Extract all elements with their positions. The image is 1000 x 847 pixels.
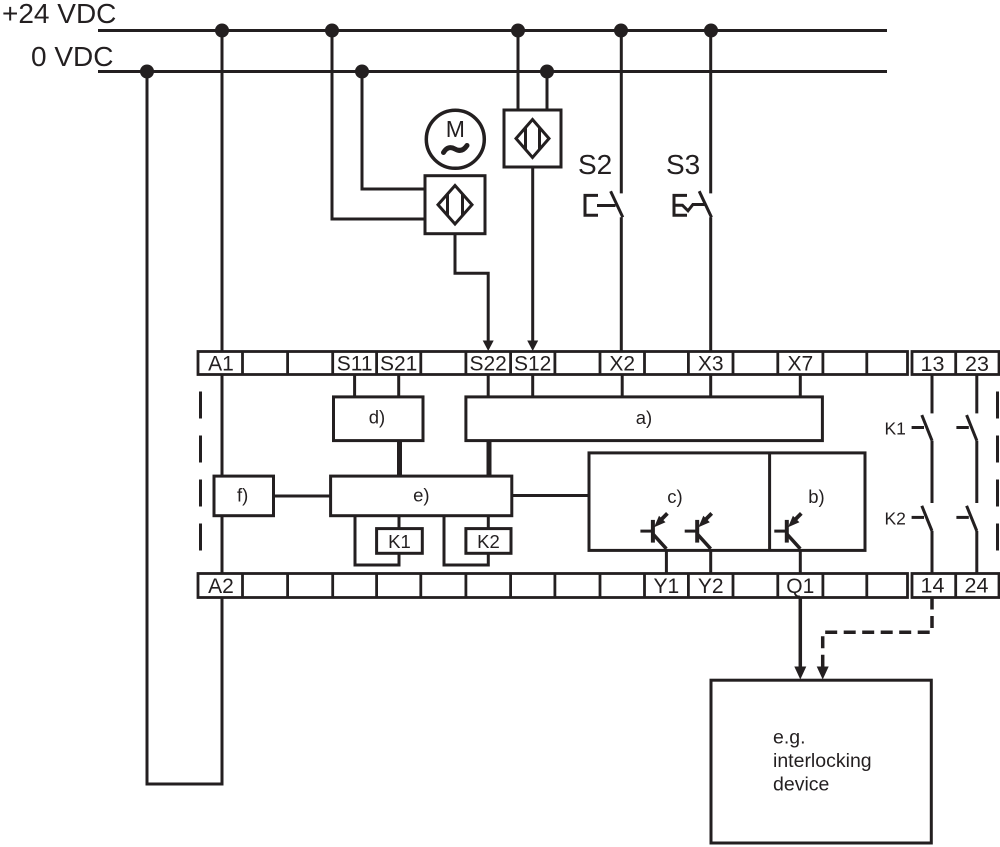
svg-text:S22: S22 [470,353,507,376]
wire 0V to sensor B1 [362,72,425,190]
svg-text:c): c) [667,486,682,507]
svg-text:A1: A1 [208,353,234,376]
arrow 14 into device [817,667,829,680]
svg-text:device: device [773,774,829,796]
arrow into S22 [483,341,494,352]
wire e to K1 coil top [398,516,401,529]
svg-text:23: 23 [965,352,989,376]
svg-text:e): e) [413,485,429,506]
0 VDC rail [98,70,887,73]
wire +24V to terminal A1 [221,31,224,352]
svg-text:f): f) [237,485,248,506]
junction on +24V rail at sensor B2 supply [511,24,525,38]
sensor B2 (non-contact position sensor) [504,110,561,167]
wire Q1 to interlocking device [799,598,803,668]
contact K2 (13-14) [912,506,932,574]
block f (power supply) [214,476,274,516]
motor M1 [426,110,484,168]
svg-text:b): b) [808,486,824,507]
wire e to K2 coil top [487,516,490,529]
svg-text:24: 24 [965,574,989,598]
wire e to K2 coil bottom [444,516,488,565]
block a (cross monitoring) [466,397,823,441]
svg-text:S3: S3 [666,149,700,180]
junction on +24V rail at S3 [704,24,718,38]
wire e to c [512,494,589,497]
bottom terminal strip [198,574,908,598]
svg-text:M: M [446,116,465,142]
wire X2 to block a [621,375,624,397]
block d (input monitoring) [334,397,424,441]
contact K2 (23-24) [956,506,976,574]
wire block f to A2 [221,516,224,574]
junction on +24V rail at sensor B1 supply [325,24,339,38]
svg-text:X3: X3 [698,353,724,376]
svg-text:S11: S11 [337,353,373,376]
wire S11 to block d [353,375,356,397]
wire output c1 to Y1 [665,550,668,573]
sensor B1 (non-contact position sensor) [425,176,485,234]
svg-text:interlocking: interlocking [773,750,872,772]
svg-text:S12: S12 [514,353,551,376]
wire f to e [274,495,331,498]
semiconductor output b1 [774,513,801,548]
wire output c2 to Y2 [709,550,712,573]
svg-text:14: 14 [921,574,945,598]
svg-text:K1: K1 [388,531,411,552]
svg-text:e.g.: e.g. [773,727,806,749]
svg-text:0 VDC: 0 VDC [31,41,113,72]
svg-text:X7: X7 [787,353,813,376]
bus link a to e [487,441,492,477]
+24 VDC rail [98,29,887,32]
junction on 0V rail at sensor B2 return [540,65,554,79]
junction on 0V rail at A2 return [140,65,154,79]
svg-text:a): a) [636,407,652,428]
semiconductor output c1 [640,513,667,548]
contact K1 (23-24) [956,375,976,504]
relay coil K2 [466,529,511,554]
top terminal block 13/23 [912,352,999,375]
junction on +24V rail at A1 drop [215,24,229,38]
svg-text:d): d) [369,407,385,428]
svg-text:13: 13 [921,352,945,376]
interlocking device box [711,680,931,843]
svg-text:K1: K1 [885,419,906,439]
wire X3 to block a [709,375,712,397]
wire S22 to block a [487,375,490,397]
output block c/b [589,453,865,551]
wire 0V rail to terminal A2 (bottom loop) [147,72,222,785]
svg-text:Y2: Y2 [698,575,724,598]
enclosure dashed border right [996,392,999,551]
wire e to K1 coil bottom [355,516,399,565]
svg-text:Y1: Y1 [654,575,680,598]
top terminal strip [198,352,908,375]
svg-text:S2: S2 [578,149,612,180]
wire S12 to block a [531,375,534,397]
switch S3 (start, NO with spring link) [674,31,712,352]
junction on +24V rail at S2 [614,24,628,38]
svg-text:Q1: Q1 [786,575,814,598]
dashed wire 14 to interlocking device [823,598,932,668]
wire S21 to block d [397,375,400,397]
wire 0V to sensor B2 [546,72,549,111]
block e (logic) [331,476,512,516]
pushbutton S2 (reset, NO) [585,31,623,352]
svg-text:K2: K2 [885,509,906,529]
svg-text:+24 VDC: +24 VDC [2,0,116,29]
wire output b1 to Q1 [799,550,802,573]
contact K1 (13-14) [912,375,932,504]
wire A1 to block f [221,375,224,477]
wire sensor B1 output to terminal S22 [455,234,488,342]
svg-text:K2: K2 [477,531,500,552]
svg-text:X2: X2 [609,353,635,376]
arrow Q1 into device [794,667,806,680]
semiconductor output c2 [685,513,712,548]
junction on 0V rail at sensor B1 return [355,65,369,79]
arrow into S12 [527,341,538,352]
wire +24V to sensor B1 [332,31,425,220]
wire +24V to sensor B2 [517,31,520,111]
svg-text:S21: S21 [380,353,417,376]
wire sensor B2 output to terminal S12 [531,167,534,342]
relay coil K1 [377,529,423,554]
bus link d to e [397,441,402,477]
wire X7 to block a [799,375,802,397]
enclosure dashed border left [199,392,202,551]
svg-text:A2: A2 [208,575,234,598]
bottom terminal block 14/24 [912,574,999,598]
